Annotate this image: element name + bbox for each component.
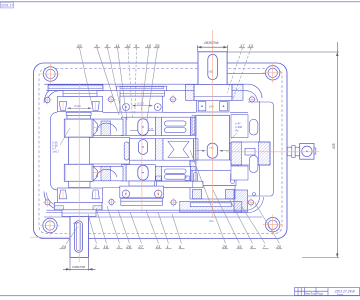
band D transition <box>129 181 155 186</box>
input boss <box>194 85 232 101</box>
top bearing <box>57 97 102 112</box>
housing outer outline <box>34 63 288 239</box>
input shaft protrusion <box>198 52 227 85</box>
svg-text:13: 13 <box>249 43 254 48</box>
svg-text:∅40: ∅40 <box>209 106 214 109</box>
svg-text:∅52: ∅52 <box>209 71 214 74</box>
corner bolt TL <box>41 64 61 84</box>
bottom cap bar <box>121 198 163 205</box>
svg-text:∅62К7/h6: ∅62К7/h6 <box>204 41 219 45</box>
svg-text:∅h17: ∅h17 <box>53 150 60 154</box>
gasket dashed line <box>39 69 282 234</box>
band C <box>122 165 127 181</box>
svg-text:27: 27 <box>138 244 144 249</box>
output shaft protrusion <box>70 216 89 257</box>
bottom bearing <box>57 188 102 202</box>
svg-text:21: 21 <box>155 244 160 249</box>
top cap flange <box>117 86 167 91</box>
top-left stamp box <box>1 2 14 8</box>
svg-text:10: 10 <box>147 43 152 48</box>
svg-text:∅48К7/h6: ∅48К7/h6 <box>72 265 86 269</box>
svg-text:∅48: ∅48 <box>73 222 78 225</box>
svg-text:1: 1 <box>167 244 169 249</box>
svg-text:Изм Лист: Изм Лист <box>305 291 317 295</box>
gear A <box>64 119 93 137</box>
svg-text:2201.17: 2201.17 <box>1 4 13 8</box>
input shaft body <box>196 115 230 161</box>
top bearing (ball) <box>120 96 162 112</box>
svg-text:28а: 28а <box>209 219 214 223</box>
svg-text:11: 11 <box>116 43 120 48</box>
svg-text:20: 20 <box>276 244 282 249</box>
svg-text:∅40: ∅40 <box>149 128 154 131</box>
svg-text:435: 435 <box>332 143 336 149</box>
frame bottom line <box>0 295 360 297</box>
corner bolt TR <box>263 63 283 83</box>
corner bolt BL <box>40 216 60 236</box>
svg-text:19: 19 <box>77 43 82 48</box>
svg-text:∅130: ∅130 <box>137 102 144 106</box>
bottom hatched band <box>180 202 242 213</box>
title block <box>295 288 360 296</box>
callout texts <box>53 123 243 154</box>
flange section lines <box>44 216 262 218</box>
svg-text:25: 25 <box>154 43 160 48</box>
input top bearing <box>197 100 230 112</box>
small flange holes <box>45 97 255 205</box>
shaft middle <box>69 137 91 164</box>
bottom cap <box>54 202 102 209</box>
gear B <box>64 164 93 181</box>
input lower step <box>190 160 238 170</box>
svg-text:Подп: Подп <box>317 291 324 295</box>
corner bolt BR <box>263 215 283 235</box>
shaft lower <box>69 181 91 187</box>
svg-text:2201.17.24.В: 2201.17.24.В <box>334 289 356 293</box>
svg-text:15: 15 <box>237 244 242 249</box>
inner cavity outline <box>44 84 264 212</box>
svg-text:28: 28 <box>222 244 228 249</box>
top cap flange <box>48 85 103 91</box>
svg-text:12: 12 <box>126 43 131 48</box>
svg-text:17: 17 <box>240 43 245 48</box>
top boss side line right <box>226 72 272 74</box>
spacer rings <box>66 112 91 115</box>
bottom bearing <box>120 186 164 198</box>
svg-text:16: 16 <box>104 244 109 249</box>
input bottom bearing <box>190 186 235 199</box>
frame top line <box>0 1 360 3</box>
band A <box>122 117 127 135</box>
svg-text:Копир: Копир <box>337 294 344 296</box>
svg-text:24: 24 <box>61 244 67 249</box>
svg-text:∅140: ∅140 <box>74 104 81 108</box>
svg-text:26: 26 <box>126 244 132 249</box>
band B <box>90 138 130 165</box>
